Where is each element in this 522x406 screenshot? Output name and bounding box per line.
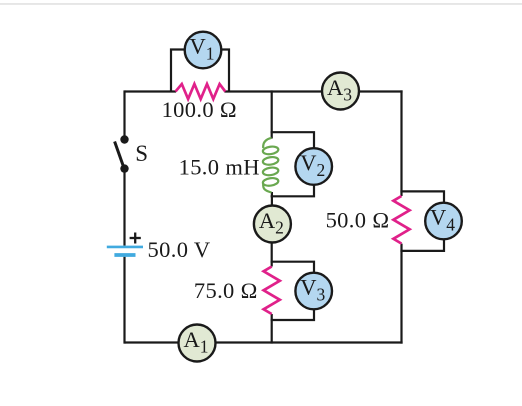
wire bottom right horizontal — [216, 341, 403, 343]
wire V2 measuring loop — [271, 132, 314, 196]
wire right vertical upper — [400, 90, 402, 196]
voltmeter V2 — [295, 148, 332, 185]
svg-text:100.0 Ω: 100.0 Ω — [162, 97, 237, 122]
wire right vertical lower — [400, 244, 402, 344]
voltmeter V4 — [425, 203, 462, 240]
wire top middle horizontal — [225, 90, 323, 92]
wire middle branch lower — [271, 314, 273, 344]
wire middle branch between coil and A2 — [271, 192, 273, 206]
svg-text:75.0 Ω: 75.0 Ω — [194, 278, 258, 303]
wire V4 measuring loop — [400, 191, 444, 251]
ammeter A2 — [254, 206, 291, 243]
wire bottom left horizontal — [125, 341, 179, 343]
svg-text:15.0 mH: 15.0 mH — [179, 155, 260, 180]
wire top-left horizontal — [125, 90, 177, 92]
switch S — [115, 135, 148, 173]
svg-text:50.0 V: 50.0 V — [148, 237, 211, 262]
wire left vertical middle — [123, 169, 125, 246]
wire V1 measuring loop — [171, 50, 229, 93]
wire left vertical lower — [123, 257, 125, 344]
ammeter A1 — [179, 325, 216, 362]
wire left vertical upper — [123, 90, 125, 139]
resistor R2 75.0 ohm — [264, 267, 280, 315]
voltmeter V3 — [295, 273, 332, 310]
wire V3 measuring loop — [271, 262, 314, 320]
inductor L1 15.0 mH — [262, 138, 278, 193]
wire middle branch between A2 and R2 — [271, 242, 273, 267]
ammeter A3 — [322, 73, 359, 110]
svg-text:50.0 Ω: 50.0 Ω — [326, 208, 390, 233]
wire top right horizontal — [359, 90, 403, 92]
voltmeter V1 — [185, 32, 222, 69]
resistor R3 50.0 ohm — [393, 196, 409, 244]
svg-text:S: S — [135, 141, 148, 166]
resistor R1 100.0 ohm — [176, 84, 226, 99]
battery 50.0 V — [107, 233, 211, 263]
wire middle branch upper — [271, 90, 273, 138]
